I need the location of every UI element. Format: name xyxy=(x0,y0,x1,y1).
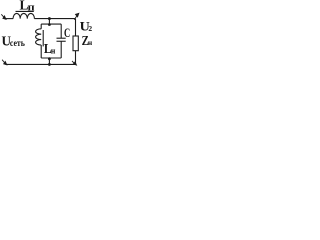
terminal arrow bottom-left tail xyxy=(2,60,5,64)
arrowhead top-left terminal xyxy=(3,16,6,20)
arrowhead bottom-right xyxy=(73,62,76,65)
arrow U2 tail (top-right) xyxy=(74,15,77,19)
inductor L2 core line xyxy=(42,30,44,46)
wire: top wire left segment xyxy=(5,18,13,20)
background xyxy=(0,0,111,74)
svg-text:C: C xyxy=(64,25,70,40)
wire: stub from LC bottom bar to bottom wire xyxy=(48,58,50,64)
arrow bottom-right tail xyxy=(72,61,75,64)
svg-text:2: 2 xyxy=(88,24,92,33)
inductor L1 core line xyxy=(16,10,34,12)
load Z box xyxy=(73,36,78,51)
wire: right branch lower xyxy=(60,41,62,58)
terminal arrow top-left tail xyxy=(1,14,4,17)
wire: left branch upper xyxy=(40,24,42,29)
wire: LC top bar xyxy=(41,23,61,25)
inductor L1 coil (3 humps) xyxy=(13,13,34,18)
svg-text:н: н xyxy=(51,46,56,55)
wire: LC bottom bar xyxy=(41,57,61,59)
capacitor C top plate xyxy=(57,37,66,39)
svg-text:сеть: сеть xyxy=(10,38,25,48)
wire: stub from top wire down to LC top bar xyxy=(48,19,50,25)
capacitor C bottom plate xyxy=(57,40,66,42)
wire: bottom wire xyxy=(6,63,76,65)
wire: top wire right segment xyxy=(34,18,75,20)
wire: left branch lower xyxy=(40,45,42,58)
wire: right branch upper (to capacitor) xyxy=(60,24,62,38)
wire: right vertical upper xyxy=(75,19,77,36)
arrowhead U2 arrow (top-right, points up-right) xyxy=(75,13,79,17)
svg-text:н: н xyxy=(88,38,93,47)
svg-text:п: п xyxy=(28,2,36,13)
junction dot LC top bar xyxy=(48,23,50,25)
wire: right vertical lower xyxy=(75,51,77,65)
junction dot top wire xyxy=(48,18,50,20)
arrowhead bottom-left terminal xyxy=(4,61,7,65)
junction dot bottom wire xyxy=(48,63,50,65)
inductor L2 coil (3 humps, bulge left) xyxy=(36,29,42,45)
junction dot LC bottom bar xyxy=(48,58,50,60)
